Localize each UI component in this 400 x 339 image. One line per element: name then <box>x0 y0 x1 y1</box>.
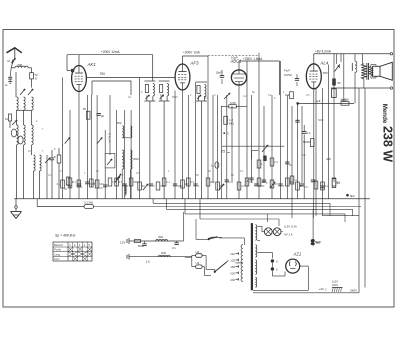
wire <box>150 54 152 56</box>
capacitor <box>172 241 179 250</box>
value label <box>231 174 234 177</box>
svg-text:U4: U4 <box>196 250 200 254</box>
svg-text:40: 40 <box>337 181 341 185</box>
switch <box>219 184 224 190</box>
trimmer <box>11 129 16 137</box>
svg-text:200: 200 <box>161 251 166 255</box>
capacitor 10µF <box>216 70 225 84</box>
wire <box>246 61 248 199</box>
wire bus <box>200 199 279 226</box>
wire dashed <box>208 55 259 57</box>
wire <box>238 85 240 199</box>
value label <box>72 180 76 184</box>
label 110/220 <box>332 280 338 287</box>
filament dot <box>271 267 278 271</box>
svg-text:0010: 0010 <box>133 157 139 161</box>
wire <box>340 54 342 62</box>
label <box>326 157 331 161</box>
junction <box>223 132 229 136</box>
wire <box>202 267 211 276</box>
wire <box>149 101 151 199</box>
svg-text:10: 10 <box>5 117 9 121</box>
capacitor <box>295 74 299 86</box>
terminal <box>390 53 392 55</box>
svg-text:0,1: 0,1 <box>48 174 52 177</box>
svg-text:AK1: AK1 <box>87 62 97 67</box>
svg-text:4V 1 A: 4V 1 A <box>284 232 293 236</box>
grid blob <box>332 79 341 86</box>
capacitor <box>30 73 38 81</box>
svg-text:5000: 5000 <box>172 96 178 99</box>
capacitor <box>285 162 292 167</box>
svg-text:1000: 1000 <box>340 98 347 102</box>
wire <box>174 91 176 200</box>
wire <box>163 101 165 199</box>
selector arm <box>214 260 229 273</box>
capacitor <box>77 184 83 189</box>
wire <box>181 212 184 241</box>
value label <box>196 174 199 177</box>
wire <box>301 106 303 183</box>
wire <box>90 95 92 187</box>
wire <box>122 170 130 200</box>
label AF3 <box>190 61 200 66</box>
switch <box>143 184 148 190</box>
value label <box>42 128 44 131</box>
coil 200 <box>156 235 168 241</box>
value label <box>268 94 272 97</box>
svg-text:Lang: Lang <box>54 252 60 256</box>
table title <box>55 234 76 238</box>
capacitor <box>262 180 268 185</box>
resistor <box>257 178 261 186</box>
svg-text:50: 50 <box>83 107 86 111</box>
wire <box>315 89 317 216</box>
capacitor <box>295 120 299 122</box>
resistor <box>57 148 61 199</box>
capacitor <box>302 131 311 135</box>
svg-text:10μF: 10μF <box>216 71 223 75</box>
svg-text:220V: 220V <box>332 283 338 287</box>
wire <box>15 208 17 211</box>
svg-text:+200V 12mA: +200V 12mA <box>101 50 120 54</box>
wire <box>185 256 196 267</box>
svg-text:100: 100 <box>185 182 190 186</box>
wire <box>271 263 273 267</box>
coil 00010 <box>34 155 36 171</box>
value label <box>153 184 155 188</box>
svg-text:E: E <box>6 83 8 87</box>
resistor <box>270 180 274 188</box>
value label <box>142 184 145 188</box>
value label <box>243 95 247 98</box>
coil <box>17 125 19 145</box>
coil <box>24 125 26 145</box>
svg-text:75V: 75V <box>100 72 107 76</box>
label +8V <box>315 49 332 53</box>
wire <box>281 231 283 233</box>
wire <box>271 95 273 199</box>
value label <box>302 154 306 157</box>
svg-text:240V: 240V <box>350 289 357 293</box>
value label <box>127 184 129 188</box>
lamp label <box>284 224 297 236</box>
wire <box>28 68 31 73</box>
speaker <box>373 62 393 80</box>
value label <box>290 180 295 184</box>
value label <box>168 170 170 173</box>
resistor <box>206 178 210 186</box>
resistor <box>115 178 119 186</box>
svg-text:MΩ: MΩ <box>229 122 234 126</box>
value label <box>185 182 190 186</box>
wire corner <box>252 150 259 159</box>
svg-text:4μF: 4μF <box>315 99 320 103</box>
resistor <box>314 181 318 189</box>
switch <box>65 138 70 144</box>
svg-text:200: 200 <box>158 235 163 239</box>
switch <box>224 93 230 99</box>
value label <box>318 119 324 122</box>
wire +250V <box>239 61 280 95</box>
capacitor <box>300 184 308 189</box>
svg-text:0.2: 0.2 <box>325 184 329 188</box>
capacitor 8µF <box>346 194 355 198</box>
wire <box>116 110 118 199</box>
value label <box>36 120 38 123</box>
svg-text:0,5: 0,5 <box>136 172 140 175</box>
value label <box>214 94 216 97</box>
svg-text:E: E <box>35 76 37 80</box>
value label <box>283 184 285 188</box>
wire <box>253 266 308 290</box>
value label <box>99 182 104 186</box>
value label <box>166 180 170 184</box>
label AL4 <box>320 61 329 66</box>
capacitor <box>225 180 229 182</box>
pilot lamp <box>264 228 272 236</box>
wire <box>280 61 282 199</box>
pilot lamp <box>273 228 281 236</box>
coil 00010 <box>130 150 139 169</box>
capacitor 0.05 <box>221 101 247 108</box>
resistor 1000 <box>332 89 347 102</box>
svg-text:0,4: 0,4 <box>274 160 278 164</box>
wire <box>15 199 17 206</box>
svg-text:8μF: 8μF <box>316 241 321 245</box>
wire drop <box>362 54 364 64</box>
coil <box>24 97 26 110</box>
svg-text:0.1: 0.1 <box>166 180 170 184</box>
wire <box>207 56 209 199</box>
svg-text:0,1: 0,1 <box>268 94 272 97</box>
switch <box>45 158 50 163</box>
capacitor <box>254 184 258 186</box>
svg-text:+200V 1mA: +200V 1mA <box>183 51 201 55</box>
antenna switch <box>8 58 16 63</box>
resistor <box>296 182 300 190</box>
resistor <box>108 178 116 186</box>
wire <box>109 95 111 155</box>
svg-text:5000: 5000 <box>318 119 324 122</box>
label <box>72 180 74 184</box>
svg-text:10μF: 10μF <box>231 56 238 60</box>
wire <box>253 292 359 294</box>
wire <box>220 106 222 199</box>
capacitor 8uF <box>311 239 321 245</box>
svg-text:0.5: 0.5 <box>191 180 195 184</box>
resistor <box>138 182 142 190</box>
capacitor <box>245 178 254 183</box>
label 78V <box>323 71 328 75</box>
wire bus <box>185 199 345 222</box>
value label <box>96 170 99 173</box>
value label <box>122 174 124 177</box>
selector contacts <box>236 252 239 280</box>
wire <box>96 95 98 199</box>
svg-text:5000: 5000 <box>138 244 144 248</box>
svg-text:6,3V 0,3A: 6,3V 0,3A <box>284 224 297 228</box>
resistor <box>83 107 90 119</box>
switch <box>270 182 275 188</box>
svg-text:Punkt: Punkt <box>54 248 61 252</box>
capacitor <box>123 184 127 186</box>
svg-text:0,1 MΩ: 0,1 MΩ <box>84 201 93 205</box>
wire <box>322 88 324 216</box>
tube AL4 <box>306 64 321 89</box>
wire <box>226 95 228 199</box>
svg-text:125: 125 <box>230 258 235 262</box>
wire tap2 <box>257 239 260 241</box>
value label <box>160 184 164 188</box>
resistor U4 <box>196 250 203 257</box>
resistor <box>332 179 340 188</box>
resistor <box>90 179 96 187</box>
svg-text:Kurz: Kurz <box>54 257 60 261</box>
trimmer <box>18 136 23 144</box>
value label <box>90 182 96 186</box>
wire +200V 1mA <box>183 56 209 64</box>
wire <box>62 78 64 200</box>
wire <box>17 109 32 111</box>
svg-text:Bereich: Bereich <box>54 243 64 247</box>
resistor <box>187 178 191 186</box>
switch <box>28 89 33 95</box>
wire <box>34 171 40 199</box>
svg-text:U K L A: U K L A <box>107 133 111 143</box>
wire <box>187 95 189 199</box>
resistor <box>162 178 166 186</box>
svg-text:0,1: 0,1 <box>57 182 61 186</box>
wire <box>86 95 88 199</box>
wire <box>258 53 260 199</box>
capacitor 8uF <box>312 239 322 245</box>
switch <box>20 89 25 95</box>
label <box>54 147 56 151</box>
label +250V 1.8mA <box>243 57 263 61</box>
svg-text:500: 500 <box>117 121 122 125</box>
wire <box>195 82 197 199</box>
resistor <box>68 178 72 186</box>
value label <box>191 180 195 184</box>
resistor <box>77 180 80 187</box>
capacitor <box>138 241 147 248</box>
svg-text:0,5: 0,5 <box>99 186 103 190</box>
IF transformer 3 <box>196 82 207 101</box>
value label <box>252 91 255 94</box>
wire <box>17 110 32 125</box>
svg-text:0,5: 0,5 <box>306 94 310 97</box>
wire <box>333 54 335 182</box>
capacitor <box>97 114 105 119</box>
value label <box>229 180 231 184</box>
value label <box>261 180 266 184</box>
svg-text:0.1: 0.1 <box>249 180 253 184</box>
svg-text:110: 110 <box>230 252 235 256</box>
title Mende <box>381 104 388 124</box>
value label <box>84 172 86 175</box>
switch <box>12 120 17 125</box>
wire AVC <box>222 145 284 147</box>
wire <box>263 106 265 183</box>
capacitor <box>50 150 56 199</box>
switch <box>116 174 121 180</box>
coil <box>352 61 357 72</box>
coil 008 <box>15 63 28 68</box>
output transformer <box>361 63 373 80</box>
svg-text:300: 300 <box>210 180 215 184</box>
table text <box>54 243 64 261</box>
capacitor <box>64 186 72 191</box>
junction <box>15 206 18 209</box>
ground <box>11 212 22 219</box>
svg-text:0.2: 0.2 <box>241 184 245 188</box>
svg-text:0,3: 0,3 <box>285 93 290 97</box>
wire <box>327 65 329 200</box>
wire +8V <box>313 54 315 64</box>
svg-text:0,1: 0,1 <box>245 179 249 183</box>
label Fa.F <box>284 69 292 78</box>
wire <box>202 256 215 272</box>
svg-text:0,1: 0,1 <box>240 170 244 173</box>
wire drop <box>354 54 356 62</box>
wire bus <box>37 199 361 207</box>
wire <box>217 95 219 199</box>
antenna <box>7 48 22 58</box>
svg-text:220: 220 <box>230 271 235 275</box>
capacitor <box>99 185 107 190</box>
wire <box>23 155 25 199</box>
svg-text:AZ1: AZ1 <box>293 252 302 257</box>
capacitor <box>149 184 153 186</box>
power switch <box>196 219 244 245</box>
volume pot <box>262 145 268 161</box>
resistor 50000 <box>303 139 314 147</box>
svg-text:150: 150 <box>230 265 235 269</box>
svg-text:8μF: 8μF <box>350 194 355 198</box>
wire <box>201 101 203 199</box>
label +200V 1mA <box>183 51 201 55</box>
coil 200 <box>158 251 170 257</box>
svg-text:Sp = 468 kHz: Sp = 468 kHz <box>55 234 76 238</box>
value label <box>240 170 244 173</box>
svg-text:240: 240 <box>230 278 235 282</box>
wire <box>46 155 48 199</box>
svg-text:μF: μF <box>101 114 105 118</box>
value label <box>172 96 178 99</box>
wire bus <box>153 199 330 216</box>
value label <box>300 184 303 188</box>
wire chain A <box>129 240 181 242</box>
terminal <box>390 87 392 89</box>
wire <box>272 271 285 276</box>
resistor <box>245 178 249 186</box>
value label <box>259 184 265 188</box>
wire B+ <box>296 102 354 105</box>
capacitor <box>311 180 315 182</box>
coil 00010 <box>122 150 124 169</box>
wire heater <box>257 253 272 259</box>
resistor <box>95 180 99 188</box>
wire bus <box>166 199 352 216</box>
wire <box>297 103 299 199</box>
resistor <box>257 160 263 168</box>
wire <box>371 65 376 79</box>
switch <box>97 138 102 144</box>
resistor <box>216 182 220 190</box>
coil <box>125 187 126 195</box>
svg-text:0,5: 0,5 <box>205 97 209 100</box>
wire <box>251 95 253 183</box>
resistor <box>5 114 12 121</box>
wire tap1 <box>257 226 264 231</box>
svg-text:0,1: 0,1 <box>128 96 132 99</box>
value label <box>198 184 200 188</box>
svg-text:25: 25 <box>220 149 225 153</box>
svg-text:0,2: 0,2 <box>243 95 247 98</box>
value label <box>249 180 253 184</box>
value label <box>274 97 276 100</box>
svg-text:Mende: Mende <box>381 104 388 124</box>
svg-text:12V: 12V <box>120 241 125 245</box>
wire <box>212 95 214 183</box>
capacitor <box>278 184 282 186</box>
tube AF3 <box>175 64 190 90</box>
svg-text:+4V △: +4V △ <box>319 287 328 291</box>
wire bus <box>14 198 370 200</box>
wire <box>78 92 80 200</box>
power switch <box>208 237 222 239</box>
wire <box>124 110 126 199</box>
coil <box>17 97 19 110</box>
value label <box>205 97 209 100</box>
svg-text:0,2: 0,2 <box>112 180 116 184</box>
wire top right <box>314 53 391 55</box>
svg-text:4μF: 4μF <box>326 157 331 161</box>
mains plug <box>332 288 343 292</box>
wire <box>24 145 32 155</box>
svg-text:0,050: 0,050 <box>284 73 292 77</box>
svg-text:238 W: 238 W <box>381 126 395 162</box>
table <box>53 242 92 261</box>
band label <box>107 133 111 143</box>
earth branch <box>6 68 13 87</box>
coil <box>32 125 34 145</box>
wire <box>312 209 314 243</box>
coil <box>32 97 34 110</box>
wire drop <box>267 214 269 222</box>
resistor 1.2MΩ <box>224 116 235 125</box>
